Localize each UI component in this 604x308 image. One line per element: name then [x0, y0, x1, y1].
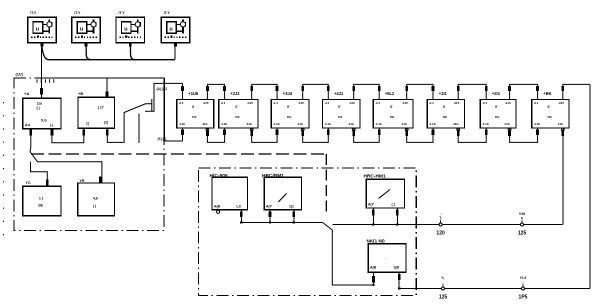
svg-text:nc: nc [338, 115, 342, 119]
svg-text:d15: d15 [454, 101, 460, 105]
relay RK-1MI [367, 238, 406, 272]
wire chain top R3-R4 [303, 84, 329, 99]
svg-text:d15: d15 [403, 101, 409, 105]
svg-text:+2I1: +2I1 [492, 91, 501, 96]
outer boundary dotted line [3, 102, 5, 238]
svg-text:4.1b: 4.1b [429, 122, 435, 126]
svg-text:A(B: A(B [214, 205, 221, 209]
svg-text:+BK: +BK [543, 91, 551, 96]
svg-text:d.1: d.1 [221, 101, 226, 105]
control module HC-505 [210, 173, 248, 210]
svg-text:4,b: 4,b [93, 197, 98, 201]
relay K1 [23, 181, 61, 216]
svg-text:A.a: A.a [25, 123, 30, 127]
svg-text:d15: d15 [299, 101, 305, 105]
wire A3 top pin [106, 78, 108, 97]
svg-text:+2J2: +2J2 [230, 91, 240, 96]
svg-text:41b: 41b [504, 122, 509, 126]
svg-text:nc: nc [495, 115, 499, 119]
svg-text:(1U): (1U) [16, 73, 24, 77]
wire chain top R5-R6 [407, 84, 433, 99]
svg-text:d15: d15 [203, 101, 209, 105]
wire chain top R4-R5 [354, 84, 380, 99]
harness boundary (dashed) [31, 153, 326, 155]
relay K2 [78, 179, 115, 216]
wire injector Y4 drop [174, 43, 176, 60]
wire chain top R6-R7 [458, 84, 486, 99]
glow plug module R1 [177, 86, 214, 136]
glow plug module R7 [480, 86, 516, 136]
splice S1P5 [522, 287, 525, 290]
svg-text:X.G: X.G [41, 119, 47, 123]
svg-text:41b: 41b [402, 122, 407, 126]
assembly boundary A4 (dash-dot box) [199, 168, 417, 296]
svg-text:d15: d15 [248, 101, 254, 105]
wire R8 bottom drop [562, 128, 564, 225]
svg-text:(2): (2) [104, 121, 108, 125]
wire chain bottom R7-R8 [510, 128, 538, 142]
wire RK-1MI output to ground rail [398, 272, 400, 288]
glow plug module R5 [373, 86, 413, 136]
svg-text:d.1: d.1 [483, 101, 488, 105]
wire HRC/BM pins [269, 210, 271, 223]
junction dots on rails [240, 221, 242, 223]
svg-text:4.1b: 4.1b [221, 122, 227, 126]
svg-text:41b: 41b [247, 122, 252, 126]
svg-text:(A| (2.2: (A| (2.2 [157, 87, 168, 91]
wire chain bottom R2-R3 [252, 128, 277, 142]
svg-text:/T.Y: /T.Y [119, 11, 126, 15]
glow plug module R2 [219, 86, 258, 136]
splice S125 [521, 223, 524, 226]
injector Y4 [161, 11, 190, 46]
svg-text:(.17: (.17 [98, 106, 104, 110]
svg-text:d15: d15 [505, 101, 511, 105]
svg-text:1 1: 1 1 [39, 197, 44, 201]
svg-text:41b: 41b [558, 122, 563, 126]
svg-text:YC.: YC. [26, 181, 32, 185]
svg-text:+B: +B [78, 91, 83, 96]
svg-text:nc: nc [235, 115, 239, 119]
svg-text:4.1b: 4.1b [274, 122, 280, 126]
wire A2-A3 link [52, 128, 84, 143]
wire A2 output to relays K1 K2 [30, 129, 102, 183]
svg-text:4.1b: 4.1b [325, 122, 331, 126]
svg-text:+1U6: +1U6 [188, 91, 199, 96]
wire HRC-HM pins [372, 208, 374, 224]
splice S120 [439, 223, 442, 226]
svg-text:d15: d15 [559, 101, 565, 105]
svg-text:HRC-HM1: HRC-HM1 [364, 173, 386, 179]
wire chain bottom R6-R7 [458, 128, 486, 142]
wire bottom bus left segment [241, 222, 322, 224]
control unit A2 [23, 91, 61, 129]
svg-text:1(B: 1(B [394, 266, 400, 270]
svg-text:4.1b: 4.1b [179, 122, 185, 126]
wire injector Y3 drop [131, 43, 136, 60]
svg-text:d15: d15 [350, 101, 356, 105]
svg-text:1P5: 1P5 [519, 295, 528, 301]
svg-text:41b: 41b [298, 122, 303, 126]
svg-text:+4J1: +4J1 [334, 91, 344, 96]
glow plug module R8 [532, 86, 569, 136]
svg-text:A(B: A(B [370, 266, 377, 270]
svg-text:+A: +A [24, 91, 29, 96]
svg-text:41b: 41b [349, 122, 354, 126]
svg-text:+3J4: +3J4 [283, 91, 293, 96]
injector Y2 [72, 11, 101, 46]
injector Y1 [28, 11, 56, 46]
control module HRC/BM [262, 173, 302, 210]
svg-text:3lb: 3lb [38, 204, 43, 208]
wire Y1 feed down to control unit [41, 44, 43, 98]
svg-text:(.1: (.1 [392, 203, 396, 207]
svg-text:NK(1 NI): NK(1 NI) [367, 238, 386, 243]
glow plug module R4 [323, 86, 361, 136]
glow plug module R6 [427, 86, 464, 136]
svg-text:u: u [36, 26, 39, 32]
svg-text:nc: nc [547, 115, 551, 119]
wire chain top R7-R8 [510, 84, 538, 99]
svg-text:120: 120 [436, 231, 445, 237]
svg-text:T.: T. [439, 216, 442, 220]
svg-text:nc: nc [192, 115, 196, 119]
svg-text:(1u: (1u [37, 102, 42, 106]
svg-text:125: 125 [518, 231, 527, 237]
svg-text:+5L2: +5L2 [385, 91, 395, 96]
svg-text:d.1: d.1 [534, 101, 539, 105]
svg-text:nc: nc [390, 115, 394, 119]
svg-text:4.1b: 4.1b [534, 122, 540, 126]
svg-text:··: ·· [522, 280, 524, 284]
svg-text:d.1: d.1 [274, 101, 279, 105]
assembly boundary A1 (dash-dot box) [14, 78, 164, 230]
svg-text:/T.Y: /T.Y [30, 11, 37, 15]
wire HC-505 output [240, 210, 242, 223]
wire chain top R1-R2 [207, 84, 224, 99]
control unit A3 [78, 91, 115, 128]
svg-text:d.1: d.1 [179, 101, 184, 105]
svg-text:/T.Y: /T.Y [164, 11, 171, 15]
wire R8 top to right rail [563, 84, 590, 99]
wire drop to relay RK [332, 230, 373, 285]
svg-text:1,0: 1,0 [236, 205, 241, 209]
svg-text:u: u [80, 26, 83, 32]
svg-text:+1I1: +1I1 [439, 91, 448, 96]
wire feed branch across to relay row [42, 77, 165, 79]
wire chain bottom R5-R6 [407, 128, 433, 142]
svg-text:d.1: d.1 [429, 101, 434, 105]
svg-text:(X| (1): (X| (1) [158, 137, 167, 141]
control module HRC-HM [364, 173, 405, 208]
wire injector Y2 drop [86, 43, 91, 60]
svg-text:·: · [443, 280, 444, 284]
svg-text:d.1: d.1 [376, 101, 381, 105]
wire stub [138, 114, 140, 143]
wire R1 top-left feed [181, 86, 184, 91]
svg-text:125: 125 [439, 295, 448, 301]
svg-text:1(1: 1(1 [289, 205, 294, 209]
wire A3 output with jog to relay row feed [107, 83, 182, 142]
wire chain bottom R4-R5 [354, 128, 380, 142]
svg-text:HRC/BM1: HRC/BM1 [262, 173, 284, 179]
svg-text:nc: nc [443, 115, 447, 119]
pin circle HC-505 [217, 210, 220, 213]
wire chain bottom R3-R4 [303, 128, 329, 142]
svg-text:41b: 41b [453, 122, 458, 126]
svg-text:A(Y: A(Y [266, 205, 273, 209]
glow plug module R3 [271, 86, 309, 136]
svg-text:·: · [385, 257, 386, 261]
svg-text:u: u [169, 26, 172, 32]
splice S125b [442, 287, 445, 290]
wire splice rail upper [332, 224, 562, 226]
wire injector bus [42, 44, 176, 60]
svg-text:4.1b: 4.1b [376, 122, 382, 126]
svg-text:/T.Y: /T.Y [74, 11, 81, 15]
svg-text:d.1: d.1 [325, 101, 330, 105]
svg-text:A(Y: A(Y [368, 203, 375, 207]
wire bus jog [323, 223, 333, 231]
wire chain top R2-R3 [252, 84, 277, 99]
svg-text:4.1b: 4.1b [483, 122, 489, 126]
wire R1 bottom-left feed [181, 129, 184, 135]
wire chain bottom R1-R2 [207, 128, 224, 142]
wire right rail [589, 84, 591, 288]
injector Y3 [116, 11, 145, 46]
svg-text:nc: nc [287, 115, 291, 119]
svg-text:u: u [124, 26, 127, 32]
svg-text:41b: 41b [202, 122, 207, 126]
